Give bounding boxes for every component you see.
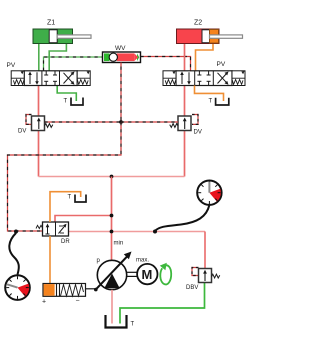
wire DBV branch y=231.5 <box>69 231 206 233</box>
left attachment <box>163 71 176 86</box>
svg-text:max.: max. <box>136 258 149 264</box>
cell1 arrows <box>181 74 183 85</box>
wire DBV return (green) to tank <box>120 283 205 324</box>
svg-text:M: M <box>142 267 153 282</box>
wire left valve T drain (green) <box>57 86 76 102</box>
wire DR drain (orange) to tank <box>50 192 81 222</box>
cell3 crossed arrows <box>218 73 228 84</box>
svg-text:DV: DV <box>18 129 26 135</box>
svg-text:T: T <box>68 195 72 201</box>
svg-text:+: + <box>42 299 46 306</box>
tank T under left valve <box>64 98 84 106</box>
cylinder Z1 <box>33 20 91 44</box>
wire DR output (orange) to actuator <box>49 236 51 284</box>
svg-text:T: T <box>209 99 213 105</box>
rotation arrow (green) <box>160 263 171 285</box>
gauge left <box>5 230 30 300</box>
node gauge tap junction <box>153 230 157 234</box>
wire P line right (red) <box>184 86 186 177</box>
svg-text:Z1: Z1 <box>47 20 55 27</box>
pump P (variable displacement) <box>94 241 149 292</box>
svg-text:PV: PV <box>7 62 16 69</box>
wire Z2 A-line (red) <box>184 44 186 71</box>
valve PV right (proportional 4/3) <box>163 61 245 86</box>
wire Z1 B-line (green) <box>49 44 66 71</box>
valve DBV (pressure relief) <box>186 268 220 292</box>
wire pump riser <box>111 177 113 261</box>
node LS junction <box>119 120 123 124</box>
svg-text:WV: WV <box>115 45 126 52</box>
svg-text:−: − <box>76 298 80 305</box>
svg-text:min: min <box>114 241 124 247</box>
node riser-DR junction <box>110 214 114 218</box>
motor M <box>127 264 158 284</box>
right attachment <box>232 71 245 86</box>
wire Z1 A-line (green) <box>38 44 40 71</box>
svg-text:DV: DV <box>194 130 202 136</box>
cell2 blocked stubs <box>198 71 200 75</box>
wire right valve T drain (orange) <box>195 86 224 102</box>
gauge right <box>155 181 222 232</box>
wire pump suction (red) into tank <box>111 290 113 324</box>
wire Z2 B-line (orange) <box>196 44 214 71</box>
compensator DV right <box>170 115 202 136</box>
left attachment: prop solenoid + spring <box>11 71 24 86</box>
wire P line left (red) valve to DV to manifold <box>38 86 40 177</box>
compensator DV left <box>18 115 53 135</box>
node riser-DBV junction <box>110 230 114 234</box>
cell3 crossed arrows <box>64 73 74 84</box>
svg-text:PV: PV <box>217 61 226 68</box>
pump stroking actuator <box>42 284 97 306</box>
wire DR supply branch <box>55 216 112 223</box>
tank T above DR <box>68 195 87 203</box>
wire WV to LS junction (red dashed vertical) <box>120 63 122 123</box>
svg-text:T: T <box>64 99 68 105</box>
valve PV left (proportional 4/3) <box>7 62 91 86</box>
svg-text:Z2: Z2 <box>194 20 202 27</box>
cell2 blocked stubs <box>45 71 47 75</box>
wire LS dashed junction to right DV <box>121 121 178 123</box>
wire LS run to DR (dashed red) <box>8 122 122 231</box>
right attachment <box>77 71 90 86</box>
valve DR (pressure regulator) <box>36 222 70 245</box>
cell1 arrows <box>29 74 31 85</box>
svg-text:T: T <box>131 322 135 328</box>
wire pressure manifold y=176.5 <box>39 176 185 178</box>
cylinder Z2 <box>177 20 243 44</box>
wire LS pilot left (green dashed) to WV <box>44 57 103 71</box>
wire WV right pilot (red dashed) to right valve <box>141 57 191 71</box>
svg-text:DR: DR <box>61 239 70 245</box>
tank T main <box>106 315 135 328</box>
svg-text:DBV: DBV <box>186 285 198 291</box>
wire LS dashed from left DV to junction <box>45 121 122 123</box>
node manifold-riser junction <box>110 175 114 179</box>
tank T under right valve <box>209 98 229 105</box>
